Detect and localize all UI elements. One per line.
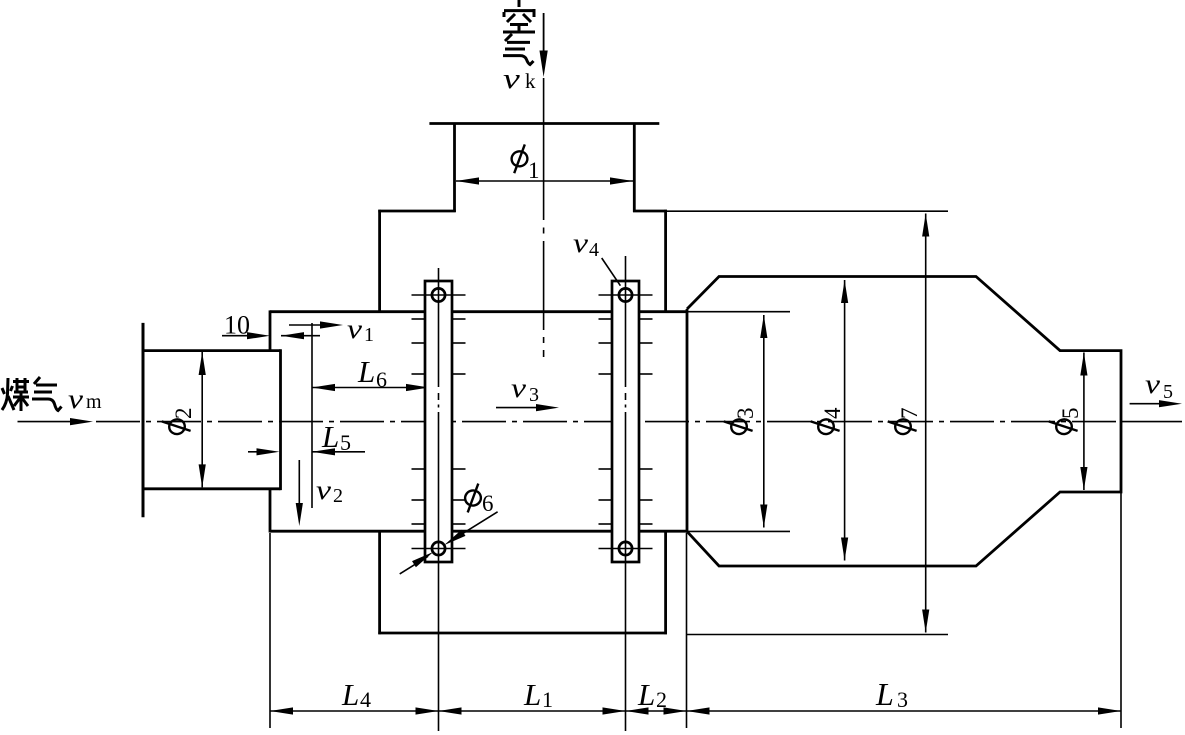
svg-text:L: L [357, 354, 375, 389]
mixing duct top wall [270, 310, 687, 313]
flow arrow v3 [496, 407, 536, 409]
flow arrow v5 [1130, 403, 1160, 405]
extension line phi3 bottom [687, 530, 790, 532]
dimension L5 [248, 451, 258, 453]
gas inlet flange [142, 323, 145, 517]
extension line L4 left [269, 533, 271, 728]
dimension phi3 [763, 315, 765, 528]
svg-text:v: v [573, 228, 588, 258]
casing bottom [378, 632, 667, 635]
svg-text:6: 6 [376, 367, 387, 392]
mixing chamber outline [687, 277, 1121, 567]
svg-text:v: v [68, 384, 83, 414]
mixing duct left wall [269, 310, 272, 352]
dimension phi2 [201, 352, 203, 487]
svg-text:L: L [321, 419, 339, 454]
dimension phi5 [1083, 353, 1085, 491]
flange tick lines strip 2 [599, 295, 653, 549]
svg-text:4: 4 [360, 687, 371, 712]
svg-text:v: v [347, 314, 362, 344]
casing top steps [378, 210, 456, 213]
bolt centerline 1 [438, 268, 440, 731]
svg-text:2: 2 [171, 408, 196, 420]
svg-text:4: 4 [820, 407, 845, 419]
dimension L3 [687, 710, 1122, 712]
air inlet pipe walls [453, 124, 456, 213]
dimension phi7 [925, 214, 927, 633]
bolt strip 1 [425, 281, 452, 562]
svg-text:3: 3 [897, 687, 908, 712]
svg-text:L: L [637, 677, 655, 712]
main horizontal centerline [96, 421, 1125, 423]
gas inlet pipe walls [142, 349, 281, 352]
bolt circle strip1 top [432, 288, 445, 301]
gas nozzle end wall [279, 349, 282, 490]
svg-text:5: 5 [1163, 381, 1173, 403]
dimension L1 [439, 710, 626, 712]
air inlet label [503, 0, 535, 32]
svg-text:v: v [316, 475, 331, 505]
bolt circle strip1 bottom [432, 542, 445, 555]
bolt circle strip2 top [619, 288, 632, 301]
svg-text:3: 3 [529, 384, 539, 406]
vertical centerline of air pipe [543, 78, 545, 357]
svg-text:k: k [525, 69, 536, 93]
flange tick lines strip 1 [412, 295, 466, 549]
gas flow arrow [18, 421, 71, 423]
extension line L2 right / L3 left [686, 533, 688, 728]
flow arrow v1 [289, 324, 336, 326]
dimension L6 [312, 387, 429, 389]
casing left wall [378, 210, 381, 312]
dimension 10 [222, 335, 247, 337]
dimension phi1 [456, 180, 633, 182]
air flow arrow vk [543, 13, 545, 53]
svg-text:1: 1 [542, 687, 553, 712]
svg-text:m: m [86, 391, 102, 413]
bolt centerline 2 [625, 256, 627, 731]
svg-text:10: 10 [224, 311, 250, 340]
svg-text:v: v [503, 64, 520, 95]
air inlet pipe flange [429, 122, 659, 125]
dimension L2 [626, 710, 687, 712]
svg-text:7: 7 [897, 408, 922, 420]
svg-text:5: 5 [340, 430, 351, 455]
dimension L4 [270, 710, 439, 712]
svg-text:3: 3 [733, 408, 758, 420]
svg-text:6: 6 [482, 491, 494, 516]
svg-text:1: 1 [364, 324, 374, 346]
svg-text:v: v [511, 373, 526, 403]
svg-text:2: 2 [656, 687, 667, 712]
svg-text:2: 2 [333, 485, 343, 507]
casing right wall [664, 210, 667, 312]
svg-text:5: 5 [1058, 408, 1083, 420]
dimension phi4 [844, 280, 846, 561]
bolt circle strip2 bottom [619, 542, 632, 555]
svg-text:4: 4 [589, 239, 599, 261]
gas inlet label [2, 377, 62, 411]
bolt strip 2 [612, 281, 639, 562]
extension line phi7 top [667, 210, 949, 212]
flow arrow v2 [298, 460, 300, 503]
svg-text:L: L [875, 676, 894, 712]
extension line nozzle exit plane [311, 323, 313, 508]
dimension phi6 with leader [464, 484, 482, 513]
mixing duct bottom wall [270, 530, 687, 533]
svg-text:L: L [341, 677, 359, 712]
svg-text:L: L [523, 677, 541, 712]
svg-text:1: 1 [528, 158, 540, 183]
extension line phi7 bottom [686, 634, 948, 636]
extension line L3 right [1120, 493, 1122, 728]
extension line phi3 top [687, 311, 790, 313]
svg-text:v: v [1145, 369, 1160, 399]
